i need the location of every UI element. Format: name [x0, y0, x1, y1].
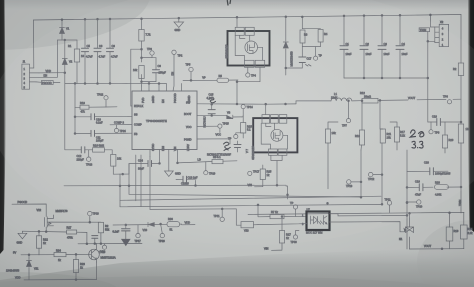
resistor R23 — [73, 254, 85, 279]
wire x407 drop — [406, 150, 408, 249]
node VIN mid — [248, 183, 263, 187]
test point TP4 — [246, 67, 257, 77]
wire Q1 drain to top rail — [236, 17, 238, 27]
test point TP22 — [97, 93, 108, 108]
resistor R19 — [446, 212, 459, 249]
wire bus B2 — [129, 180, 361, 197]
diode V2 — [62, 39, 72, 83]
resistor R27b 470k — [67, 226, 77, 240]
wire VDD bottom row — [15, 276, 97, 281]
capacitor C19 47nF — [407, 180, 433, 197]
ground left — [17, 231, 27, 244]
ground right small — [122, 239, 130, 245]
node VDD label — [39, 69, 66, 74]
test point TP16 — [228, 133, 243, 141]
transistor Q1 dual MOSFET block — [225, 27, 270, 67]
squiggle mark SS1 — [209, 97, 216, 103]
resistor R14 2.2k — [461, 213, 474, 249]
test point TP19 — [204, 162, 216, 176]
capacitor C17 — [285, 47, 312, 69]
capacitor C6 4.7uF — [94, 18, 106, 83]
wire bus left feeders — [120, 155, 150, 209]
test point TP11b — [385, 197, 392, 212]
test point TP11a — [214, 209, 225, 222]
top shadow strip — [0, 0, 474, 10]
test point TP24 — [114, 125, 126, 133]
node 5V row3 — [13, 251, 90, 256]
value V7 vertical — [245, 149, 249, 153]
capacitor C21 — [92, 236, 98, 244]
wire PVDD rail to U1 — [120, 82, 167, 84]
capacitor C1 10uF — [340, 15, 352, 78]
node VIN bottom — [264, 247, 282, 251]
resistor R24 — [54, 249, 66, 263]
value RK73 label2 — [203, 116, 207, 128]
wire PGND row — [197, 139, 230, 144]
capacitor C9 150pF — [153, 58, 167, 82]
test point TP3 — [142, 47, 155, 58]
test point TP12 — [368, 172, 383, 181]
diode V13 — [241, 222, 258, 233]
capacitor C16 — [234, 141, 241, 152]
resistor R8 7.7k — [139, 18, 151, 58]
resistor R1 — [65, 40, 85, 84]
resistor R3 — [300, 16, 321, 47]
test point TP25 — [99, 244, 107, 254]
wire left drop to J1 — [30, 20, 34, 68]
resistor R22 — [36, 231, 48, 255]
opto U7 — [302, 208, 330, 235]
test point TP7 — [342, 100, 351, 128]
connector X2 — [419, 14, 449, 122]
node PGOOD label — [36, 81, 60, 85]
resistor R9 — [133, 57, 156, 86]
resistor R20 4.99k — [435, 181, 462, 197]
test point TP10 — [406, 200, 423, 209]
capacitor C2 10uF — [360, 15, 372, 78]
wire right drop — [460, 15, 462, 214]
wire right mid verticals — [361, 143, 382, 204]
wire cap bottom rail — [344, 77, 428, 79]
resistor R7 — [325, 122, 338, 189]
capacitor C11 100pF — [74, 130, 132, 142]
capacitor C5 4.7uF — [82, 18, 94, 83]
test point TP21 — [314, 47, 323, 61]
wire VDD bottom rail — [65, 82, 120, 84]
wire L1 row from Q2 — [296, 101, 331, 104]
capacitor C15 boot — [197, 93, 227, 117]
wire bus B4 — [120, 204, 381, 206]
resistor R13 — [355, 100, 365, 150]
mosfet V12 MMBF170 — [12, 200, 68, 227]
transistor V28 MMBT2222A — [89, 243, 116, 279]
bottom shadow of photo — [0, 247, 474, 287]
value TRIM vertical — [458, 200, 462, 206]
test point TP6 — [443, 95, 452, 104]
node COMP3 — [110, 121, 132, 125]
capacitor C12 220pF and resistor R16 — [65, 84, 112, 162]
resistor R30 — [167, 217, 180, 231]
test point TP8 — [429, 122, 440, 135]
capacitor C18 — [428, 115, 462, 126]
wire VCC row — [197, 125, 218, 127]
wire opto feed — [150, 209, 241, 225]
left black band — [0, 0, 6, 254]
capacitor C10 0.1uF — [74, 114, 132, 125]
test point TP15 — [218, 122, 229, 133]
wire U1 top pin stubs — [142, 84, 182, 92]
test point TP5 — [186, 63, 194, 81]
node EN label — [39, 40, 62, 77]
resistor R31 — [111, 154, 129, 175]
test point TP09 — [291, 231, 300, 245]
wire PGOOD pullup row — [183, 79, 238, 82]
resistor R4 — [318, 30, 328, 43]
inductor L1 22uH — [331, 92, 352, 101]
resistor R21h — [257, 204, 306, 219]
resistor R5 — [202, 74, 228, 82]
op-amp U1 TPS40060RTE — [132, 91, 197, 151]
diode V10 — [143, 222, 155, 231]
test point TP27 — [135, 225, 142, 243]
diode V11 — [6, 255, 39, 280]
wire Q1 source to SW — [237, 67, 260, 104]
wire bus B5 — [248, 212, 464, 214]
ground mid — [165, 170, 181, 177]
squiggle mark SS2 — [224, 142, 231, 150]
wire U1 bottom stubs — [150, 150, 178, 171]
wire row2 — [78, 242, 142, 244]
wire RT branch — [131, 49, 142, 106]
handwriting 3.3 — [412, 141, 423, 148]
shunt regulator N1 TL431 — [399, 212, 414, 249]
test point TP28 — [88, 211, 100, 222]
node VDD2 — [182, 221, 195, 225]
resistor R17 — [390, 122, 406, 150]
wire bus B1 — [64, 184, 286, 187]
pen mark top — [227, 1, 230, 6]
capacitor C7 4.7uF — [107, 18, 119, 83]
diode V3 — [227, 111, 242, 119]
capacitor C20 — [407, 161, 451, 176]
resistor R28v — [279, 216, 291, 250]
wire V12 drain row — [52, 221, 101, 223]
right black band — [468, 0, 474, 232]
test point TP13 — [346, 180, 362, 188]
capacitor C4 10uF — [396, 14, 408, 78]
wire left feed column — [74, 83, 76, 133]
wire opto right pins — [330, 214, 408, 232]
resistor R2 — [453, 63, 464, 76]
resistor R21v 51k — [98, 222, 110, 243]
wire Q2 drain/source — [266, 104, 282, 185]
connector J1 — [22, 60, 39, 90]
wire bus B3 — [120, 196, 381, 200]
wire V12 source row — [22, 227, 87, 244]
capacitor C13 1uF — [176, 175, 198, 185]
zener V4 — [283, 16, 293, 75]
resistor R25 1k — [260, 165, 272, 187]
resistor R18 — [75, 101, 117, 114]
test point TP18 — [290, 201, 298, 217]
resistor R12 20mOhm — [352, 91, 461, 103]
resistor R29 — [442, 122, 453, 153]
capacitor C3 10uF — [378, 15, 390, 79]
test point TP26 — [159, 224, 166, 243]
ground top — [174, 17, 184, 32]
wire VOUT bottom rail — [410, 244, 464, 250]
transistor Q2 MOSFET block — [251, 115, 298, 160]
resistor R15 — [241, 115, 253, 138]
resistor R11 — [379, 100, 392, 144]
capacitor C14 33pF — [129, 159, 160, 171]
wire VDD branch row — [113, 223, 182, 226]
resistor R6 LDRV — [177, 155, 237, 164]
test point TP14 — [241, 105, 253, 117]
resistor R10 — [458, 124, 469, 143]
test point TP2 — [171, 50, 183, 91]
diode V1 — [60, 19, 70, 40]
wire mid drop — [286, 186, 288, 199]
test point TP23 — [86, 150, 93, 167]
test point TP17 — [248, 170, 260, 176]
capacitor C22 0.1uF — [113, 225, 131, 239]
wire SW row — [197, 103, 296, 105]
wire opto pin3 — [258, 224, 307, 225]
wire top rail — [34, 15, 462, 21]
top-left corner shadow — [0, 0, 150, 50]
handwriting 209 — [410, 130, 424, 137]
